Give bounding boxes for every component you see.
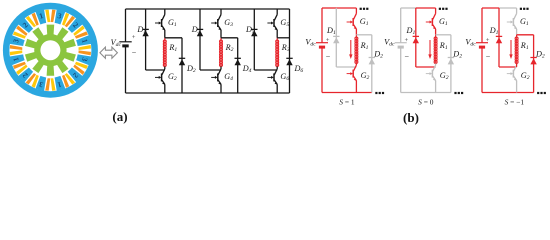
sub S=-1 diode D1 (496, 8, 502, 67)
top rail (126, 8, 290, 10)
svg-text:−: − (486, 52, 491, 61)
node Y wire leg 2 (200, 69, 221, 71)
sub S=-1 bottom dots (537, 92, 546, 94)
phase winding R3 (276, 38, 279, 67)
diode D4 branch (235, 38, 241, 93)
sub S=1 bottom rail (322, 92, 372, 94)
svg-text:S = 1: S = 1 (339, 98, 355, 107)
sub S=1 node X wire (356, 34, 371, 36)
sub S=-1 node X wire (517, 34, 534, 36)
sub S=-1 node Y wire (499, 66, 517, 68)
node X wire leg 3 (277, 37, 289, 39)
svg-text:+: + (326, 37, 330, 44)
sub S=0 bottom rail (401, 92, 451, 94)
Vdc source (119, 9, 137, 93)
sub-circuit S=-1 Vdc source (476, 8, 491, 93)
sub S=1 IGBT G2 (347, 64, 357, 93)
diode D5 branch (251, 9, 257, 70)
sub-circuit S=1 Vdc source (316, 8, 331, 93)
sub S=1 top rail right (336, 7, 356, 9)
sub S=-1 top rail right (499, 7, 517, 9)
sub S=0 diode D1 (413, 8, 419, 67)
node Y wire leg 3 (254, 69, 277, 71)
stator tooth phase numbers (11, 11, 90, 90)
diode D2 branch (179, 38, 185, 93)
rotor poles (25, 25, 76, 76)
IGBT G2 (155, 67, 165, 94)
svg-text:S = −1: S = −1 (505, 98, 525, 107)
rotor (green 10-pole) (34, 34, 66, 66)
sub S=0 node X wire (436, 34, 451, 36)
sub S=-1 top rail left (482, 7, 499, 9)
IGBT G6 (267, 67, 277, 94)
svg-text:+: + (405, 37, 409, 44)
svg-text:S = 0: S = 0 (418, 98, 434, 107)
sub S=0 IGBT G2 (426, 64, 436, 93)
sub-circuit S=0 Vdc source (395, 8, 410, 93)
stator coil sides (yellow/orange wedge pairs) (10, 10, 91, 91)
sub S=-1 IGBT G1 (507, 8, 517, 35)
sub S=-1 IGBT G2 (507, 64, 517, 93)
sub S=1 node Y wire (336, 66, 356, 68)
sub S=1 top rail left (322, 7, 336, 9)
IGBT G3 (211, 9, 221, 38)
sub S=0 top dots (439, 8, 448, 10)
motor stator yoke (3, 3, 98, 98)
svg-text:−: − (326, 52, 331, 61)
svg-text:+: + (132, 34, 136, 41)
IGBT G4 (211, 67, 221, 94)
diode D1 branch (142, 9, 148, 70)
bottom rail (126, 92, 290, 94)
node X wire leg 2 (221, 37, 238, 39)
sub S=1 diode D1 (333, 8, 339, 67)
sub S=0 top rail left (401, 7, 416, 9)
svg-text:+: + (486, 37, 490, 44)
node X wire leg 1 (165, 37, 182, 39)
IGBT G1 (155, 9, 165, 38)
sub S=0 top rail right (416, 7, 436, 9)
phase winding R2 (220, 38, 223, 67)
double arrow between motor and circuit (100, 47, 118, 58)
svg-text:(b): (b) (403, 110, 419, 125)
stator teeth (blue wedges) (10, 9, 91, 90)
sub S=1 IGBT G1 (347, 8, 357, 35)
svg-text:−: − (405, 52, 410, 61)
sub S=0 current arrow (428, 40, 431, 59)
sub S=-1 top dots (520, 8, 529, 10)
node Y wire leg 1 (146, 69, 165, 71)
phase winding R1 (163, 38, 166, 67)
sub S=0 IGBT G1 (426, 8, 436, 35)
sub S=0 node Y wire (416, 66, 436, 68)
svg-text:(a): (a) (112, 109, 127, 124)
sub S=0 bottom dots (454, 92, 463, 94)
sub S=-1 winding R1 (515, 35, 518, 64)
sub S=1 winding R1 (355, 35, 358, 64)
sub S=1 diode D2 (369, 35, 375, 93)
sub S=-1 diode D2 (530, 35, 536, 93)
sub S=1 bottom dots (375, 92, 384, 94)
diode D6 branch (286, 9, 292, 93)
diode D3 branch (197, 9, 203, 70)
sub S=-1 current arrow (509, 40, 512, 59)
sub S=1 current arrow (349, 40, 352, 59)
svg-text:−: − (132, 48, 137, 57)
IGBT G5 (267, 9, 277, 38)
sub S=0 winding R1 (434, 35, 437, 64)
sub S=-1 bottom rail (482, 92, 534, 94)
sub S=0 diode D2 (448, 35, 454, 93)
sub S=-1 winding bottom stub (516, 64, 518, 68)
sub S=1 top dots (360, 8, 369, 10)
